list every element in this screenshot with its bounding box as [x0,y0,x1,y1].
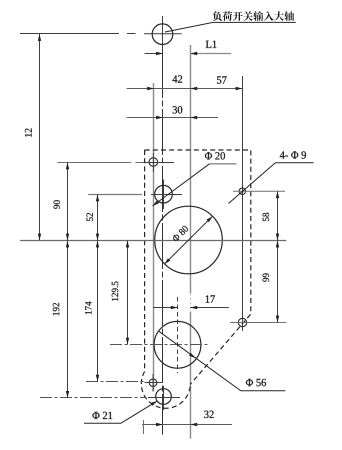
leader: 4-phi9 label [229,163,314,204]
dimension 17 line [153,307,229,309]
phi80 diagonal diameter arrows [164,216,212,264]
wire: extension line y194 to left [88,194,142,196]
label 32 [204,411,213,418]
hole top-right phi9 [239,188,245,194]
wire: top shaft vertical centerline stub [162,16,164,52]
dimension 12 vertical [39,34,41,240]
hole phi20 [155,185,173,203]
hole phi21 [156,389,172,405]
dimension 42/57 line [127,88,244,90]
label 192 [53,303,59,315]
leader: phi56 label [158,331,285,391]
hole bottom-left phi9 [149,379,157,387]
wire: top shaft horizontal centerline [20,33,182,35]
label phi80 [172,225,189,242]
label 90 [53,200,59,208]
dimension 129.5 vertical [127,241,129,345]
plate dashed outline [141,150,250,408]
dimension 90/192 vertical [67,163,69,398]
leader: to label 负荷开关输入大轴 [165,22,296,32]
label 174 [85,302,91,315]
dimension 32 line [142,424,232,426]
wire: extension line y162 to left [58,162,144,164]
wire: top-right hole crosshair and extension [233,190,285,192]
label 58 [263,213,269,221]
label 42 [172,75,182,82]
hole phi56 [154,321,201,368]
wire: top-left hole crosshair [143,153,174,172]
label phi21 [92,412,112,419]
wire: main vertical centerline [162,52,164,435]
shaft circle: load switch input shaft [152,24,173,45]
wire: extension y381.7 to left [86,381,144,383]
label 57 [217,76,227,83]
label 4-phi9 [280,151,306,158]
hole phi80 [155,206,223,274]
hole bottom-right phi9 [238,318,246,326]
wire: right-holes vertical extension line [242,76,244,331]
hole top-left phi9 [149,158,158,167]
label L1 [206,41,217,48]
leader: phi20 label [153,164,210,206]
wire: phi21 crosshair [148,386,180,410]
label phi56 [246,379,266,386]
dimension L1 line [145,53,163,55]
label 12 [25,128,32,136]
dimension 52/174 vertical [97,195,99,382]
wire: extension y397.9 to left [40,397,146,399]
wire: phi80 horizontal centerline [20,240,286,242]
wire: phi56 horizontal centerline [110,344,210,346]
label 17 [206,295,215,302]
wire: bottom-left hole crosshair [145,374,164,392]
dimension 58/99 vertical line [277,191,279,322]
wire: short extension x143.5 bottom [143,420,145,434]
wire: phi20 crosshair [151,180,182,210]
wire: bottom-right hole crosshair and extension [230,322,286,324]
wire: phi56 vertical dashed centerline [177,297,179,373]
label phi20 [205,152,225,159]
label 30 [173,106,183,113]
dimension 30 line [127,117,218,119]
wire: left-holes vertical extension line [153,83,155,391]
leader: phi21 label [84,401,157,423]
label 129.5 [112,281,118,300]
label: 负荷开关输入大轴 [212,11,294,21]
wire: phi80/phi56 vertical centerline extension [190,45,192,293]
label 99 [263,273,269,281]
label 52 [87,213,93,221]
